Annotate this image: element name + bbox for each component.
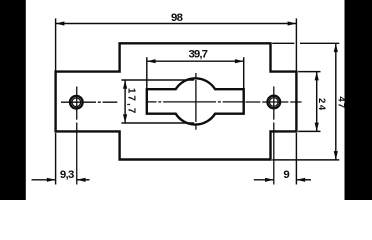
dimension 24: top arrowhead xyxy=(315,72,319,81)
dimension 9: left tail of dimension line xyxy=(254,179,274,181)
dimension 17,7: dimension line xyxy=(124,80,126,123)
dimension 24: dimension line xyxy=(316,72,318,132)
dimension 47: dimension line xyxy=(335,43,337,160)
left hole inner circle xyxy=(72,98,81,107)
dimension 9: left arrowhead (points right) xyxy=(265,178,274,182)
svg-text:39,7: 39,7 xyxy=(189,48,208,60)
dimension 9,3: left tail of dimension line xyxy=(32,179,56,181)
left letterbox bar xyxy=(0,0,26,200)
right hole vertical centerline xyxy=(273,87,275,120)
dimension 9: right arrowhead (points left) xyxy=(296,178,305,182)
dimension 9,3: right arrowhead (points left) xyxy=(77,178,86,182)
svg-text:47: 47 xyxy=(336,96,347,109)
right hole outer circle xyxy=(267,96,280,109)
dimension 24: top extension line xyxy=(298,71,320,73)
plate outline (cross-shaped mounting plate) xyxy=(56,43,297,159)
right hole centerline extension down to 9 dimension xyxy=(273,123,275,185)
dimension 98: dimension line xyxy=(56,23,297,25)
dimension 9,3: left extension line (plate edge extended) xyxy=(55,133,57,185)
svg-text:98: 98 xyxy=(171,12,183,24)
svg-text:9,3: 9,3 xyxy=(60,169,74,181)
dimension 24: bottom extension line xyxy=(298,130,320,132)
dimension 98: right arrowhead xyxy=(288,21,297,25)
dimension 9,3: right tail of dimension line xyxy=(77,179,90,181)
left hole vertical centerline xyxy=(76,87,78,120)
dimension 98: left arrowhead xyxy=(56,21,65,25)
dimension 17,7: top arrowhead xyxy=(123,80,127,89)
dimension 24: bottom arrowhead xyxy=(315,123,319,132)
left hole outer circle xyxy=(70,96,83,109)
dimension 47: bottom arrowhead xyxy=(334,151,338,160)
dimension 39,7: dimension line xyxy=(147,60,244,62)
dimension 9: right extension line (plate edge extended) xyxy=(295,133,297,185)
right letterbox bar xyxy=(345,0,372,200)
dimension 9,3: left arrowhead (points right) xyxy=(47,178,56,182)
dimension 98: left extension line xyxy=(55,18,57,71)
dimension 47: top extension line xyxy=(272,42,294,44)
central slot with round bulge (union of rect and circle) xyxy=(147,78,244,124)
svg-text:9: 9 xyxy=(283,169,289,181)
svg-text:24: 24 xyxy=(316,98,327,112)
dimension 39,7: left extension line xyxy=(146,57,148,88)
left hole centerline extension down to 9,3 dimension xyxy=(76,123,78,185)
dimension 47: bottom extension line xyxy=(272,159,339,161)
right hole inner circle xyxy=(269,98,278,107)
dimension 98: right extension line xyxy=(295,18,297,71)
dimension 17,7: top extension line xyxy=(121,79,194,81)
dimension 9: right tail of dimension line xyxy=(296,179,311,181)
svg-text:17,7: 17,7 xyxy=(125,88,136,115)
dimension 17,7: bottom arrowhead xyxy=(123,114,127,123)
slot vertical centerline xyxy=(195,73,197,130)
right hole horizontal centerline xyxy=(245,101,302,103)
dimension 17,7: bottom extension line xyxy=(121,122,194,124)
dimension 47: top arrowhead xyxy=(334,43,338,52)
dimension 47: top extension line (continued after break) xyxy=(300,42,339,44)
left hole horizontal centerline xyxy=(61,101,117,103)
dimension 39,7: right arrowhead xyxy=(235,59,244,63)
dimension 39,7: right extension line xyxy=(243,57,245,88)
slot horizontal centerline xyxy=(148,101,244,103)
dimension 39,7: left arrowhead xyxy=(147,59,156,63)
